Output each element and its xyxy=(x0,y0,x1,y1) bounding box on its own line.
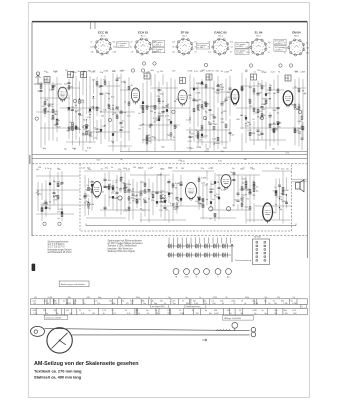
svg-text:2,2M: 2,2M xyxy=(58,209,63,211)
svg-text:1,2k: 1,2k xyxy=(172,47,175,49)
capacitor xyxy=(156,192,159,193)
dashed PCB box xyxy=(80,164,292,231)
svg-text:Rö 6: Rö 6 xyxy=(294,36,299,38)
svg-text:12k: 12k xyxy=(97,303,100,305)
wire xyxy=(302,79,304,140)
wire xyxy=(246,219,290,221)
IF transformer xyxy=(285,75,291,81)
capacitor xyxy=(217,89,220,90)
junction xyxy=(136,195,137,196)
svg-text:3n: 3n xyxy=(262,310,264,312)
wire xyxy=(265,82,267,150)
capacitor xyxy=(176,207,179,208)
svg-text:zu Stift 3: zu Stift 3 xyxy=(275,42,282,45)
junction xyxy=(124,112,125,113)
svg-text:15p: 15p xyxy=(173,303,176,305)
tube socket EL 84 xyxy=(250,38,267,55)
svg-text:12k: 12k xyxy=(46,303,49,305)
wire xyxy=(292,178,307,180)
wire xyxy=(130,174,170,176)
table note box xyxy=(300,305,307,308)
capacitor xyxy=(56,124,59,125)
junction xyxy=(82,133,83,134)
svg-text:50: 50 xyxy=(230,52,232,54)
IF transformer xyxy=(81,72,87,78)
wire xyxy=(40,127,80,129)
resistor xyxy=(154,106,156,109)
resistor xyxy=(205,103,207,106)
svg-text:12k: 12k xyxy=(194,52,197,54)
wire xyxy=(189,74,191,151)
tube V9 xyxy=(263,203,273,223)
wire xyxy=(36,213,74,215)
resistor xyxy=(275,192,277,195)
wire xyxy=(170,78,172,140)
resistor xyxy=(214,214,216,217)
capacitor xyxy=(176,198,179,199)
frame tick wires xyxy=(91,22,96,29)
junction xyxy=(88,202,89,203)
wire xyxy=(72,75,74,146)
svg-text:560: 560 xyxy=(293,313,296,315)
wire xyxy=(201,79,203,145)
capacitor xyxy=(100,93,103,94)
electrolytic cap xyxy=(227,207,231,211)
resistor xyxy=(72,123,74,126)
voltage table 2 xyxy=(31,308,308,314)
resistor xyxy=(146,136,148,139)
svg-text:560: 560 xyxy=(113,42,116,44)
wire xyxy=(142,83,144,144)
resistor xyxy=(57,183,59,186)
svg-text:33k: 33k xyxy=(285,313,288,315)
svg-text:Netzspannungs-Umsch.: Netzspannungs-Umsch. xyxy=(48,248,73,251)
junction xyxy=(48,106,49,107)
antenna xyxy=(34,72,42,84)
wire xyxy=(196,141,228,143)
resistor xyxy=(68,86,70,89)
wire xyxy=(286,177,288,208)
capacitor xyxy=(278,185,281,186)
cord spring xyxy=(216,329,231,331)
junction xyxy=(154,112,155,113)
bus wire lower xyxy=(86,224,296,226)
resistor xyxy=(197,135,199,138)
svg-text:1M: 1M xyxy=(213,118,216,120)
resistor xyxy=(205,85,207,88)
svg-text:1M: 1M xyxy=(121,127,124,129)
svg-text:2,2M: 2,2M xyxy=(186,120,191,122)
wire xyxy=(140,219,186,221)
coil core xyxy=(45,207,47,210)
svg-text:3n: 3n xyxy=(182,300,184,302)
resistor xyxy=(108,105,110,108)
resistor xyxy=(128,102,130,105)
tube V8 xyxy=(221,175,231,190)
svg-text:22n: 22n xyxy=(43,310,46,312)
svg-text:4,7k: 4,7k xyxy=(127,313,131,315)
wire xyxy=(36,189,80,191)
wire xyxy=(210,181,212,209)
resistor xyxy=(44,102,46,105)
table note box xyxy=(44,315,67,319)
wire xyxy=(279,178,281,219)
junction xyxy=(279,198,280,199)
wire xyxy=(249,175,251,223)
svg-text:0,5M: 0,5M xyxy=(95,129,100,131)
wire xyxy=(88,178,90,215)
cord arrow mark xyxy=(202,339,207,341)
capacitor xyxy=(217,85,220,86)
wire xyxy=(253,175,255,223)
svg-text:Rö 3: Rö 3 xyxy=(182,36,187,38)
wire xyxy=(154,74,156,152)
capacitor xyxy=(257,130,260,131)
tube socket EF 89 xyxy=(176,38,193,55)
resistor xyxy=(253,182,255,185)
capacitor xyxy=(120,123,123,124)
circled number xyxy=(289,64,292,67)
svg-text:0,1: 0,1 xyxy=(69,313,72,315)
svg-text:90: 90 xyxy=(229,313,231,315)
wire xyxy=(197,82,199,147)
resistor xyxy=(128,197,130,200)
capacitor xyxy=(189,137,192,138)
dial cord line upper xyxy=(44,329,249,331)
coil core xyxy=(89,109,91,112)
circled number xyxy=(153,62,156,65)
socket pin labels EABC 80 xyxy=(208,42,234,54)
svg-text:4,7k: 4,7k xyxy=(208,52,211,54)
svg-text:1M: 1M xyxy=(176,202,179,204)
resistor xyxy=(277,89,279,92)
junction xyxy=(132,188,133,189)
wire xyxy=(292,180,307,182)
switch wiring ticks xyxy=(169,238,231,244)
junction xyxy=(257,116,258,117)
capacitor xyxy=(213,117,216,118)
resistor xyxy=(108,186,110,189)
svg-text:5n: 5n xyxy=(269,47,271,49)
svg-text:2,2M: 2,2M xyxy=(202,101,207,103)
resistor xyxy=(217,137,219,140)
resistor xyxy=(144,190,146,193)
resistor xyxy=(146,141,148,144)
svg-text:4,7k: 4,7k xyxy=(102,310,106,312)
notes text block 2 xyxy=(108,240,144,253)
wire xyxy=(38,83,62,85)
wire xyxy=(57,172,59,210)
capacitor xyxy=(120,130,123,131)
socket pin labels ECH 81 xyxy=(130,42,157,54)
capacitor xyxy=(120,112,123,113)
wire xyxy=(176,183,178,214)
junction xyxy=(112,107,113,108)
IF transformer xyxy=(44,77,50,83)
svg-text:Änderungen vorbehalten: Änderungen vorbehalten xyxy=(61,283,86,286)
junction xyxy=(302,90,303,91)
wire xyxy=(150,87,178,89)
capacitor xyxy=(45,202,48,203)
resistor xyxy=(265,100,267,103)
svg-text:47p: 47p xyxy=(268,42,271,44)
resistor xyxy=(241,88,243,91)
wire xyxy=(229,76,231,143)
svg-text:4,7k: 4,7k xyxy=(131,52,134,54)
svg-text:5k: 5k xyxy=(111,310,113,312)
junction xyxy=(162,101,163,102)
tube V1 xyxy=(58,87,67,102)
svg-text:6,8k: 6,8k xyxy=(306,52,309,54)
junction xyxy=(189,117,190,118)
socket pin labels EL 84 xyxy=(246,42,271,54)
coil core xyxy=(112,133,114,136)
wire xyxy=(36,175,80,177)
switch labels xyxy=(175,276,230,279)
svg-text:UKW: UKW xyxy=(184,277,188,279)
junction xyxy=(152,191,153,192)
capacitor xyxy=(229,133,232,134)
svg-text:30p: 30p xyxy=(246,42,249,44)
frame left border xyxy=(31,22,33,236)
resistor xyxy=(202,199,204,202)
svg-text:EF 89: EF 89 xyxy=(181,30,189,34)
wire xyxy=(218,174,220,219)
svg-text:70: 70 xyxy=(208,47,210,49)
resistor xyxy=(142,105,144,108)
svg-text:1M: 1M xyxy=(181,168,184,170)
junction xyxy=(205,119,206,120)
wire xyxy=(116,75,118,142)
circled number xyxy=(260,116,263,119)
svg-text:70: 70 xyxy=(167,313,169,315)
capacitor xyxy=(261,133,264,134)
resistor xyxy=(253,108,255,111)
svg-text:125: 125 xyxy=(126,303,129,305)
wire xyxy=(104,173,106,217)
resistor xyxy=(128,207,130,210)
resistor xyxy=(56,119,58,122)
wire xyxy=(108,81,110,142)
svg-text:zu Stift 6: zu Stift 6 xyxy=(236,45,243,48)
resistor xyxy=(282,187,284,190)
capacitor xyxy=(237,200,240,201)
resistor xyxy=(124,189,126,192)
wire xyxy=(166,82,168,139)
svg-text:0,5M: 0,5M xyxy=(221,190,226,192)
svg-text:Spannungen mit Röhrenvoltmeter: Spannungen mit Röhrenvoltmeter xyxy=(108,240,143,243)
wire xyxy=(49,171,51,211)
scan mark left edge xyxy=(29,155,31,164)
table note box xyxy=(151,305,169,308)
tube V6 xyxy=(93,182,102,199)
svg-text:2,2M: 2,2M xyxy=(266,99,271,101)
svg-text:Toleranz ± 15%. Meßbereich: Toleranz ± 15%. Meßbereich xyxy=(108,245,138,248)
boxed note xyxy=(59,281,89,287)
capacitor xyxy=(180,184,183,185)
capacitor xyxy=(104,179,107,180)
capacitor xyxy=(168,182,171,183)
svg-text:6,8k: 6,8k xyxy=(230,42,233,44)
resistor xyxy=(249,207,251,210)
svg-text:1M: 1M xyxy=(241,85,244,87)
junction xyxy=(116,187,117,188)
svg-text:0,1: 0,1 xyxy=(268,52,270,54)
resistor xyxy=(88,203,90,206)
svg-text:1M: 1M xyxy=(147,135,150,137)
wire xyxy=(180,175,182,206)
wire xyxy=(56,77,58,141)
svg-text:0,5M: 0,5M xyxy=(221,101,226,103)
svg-text:0,5M: 0,5M xyxy=(67,303,72,305)
wire xyxy=(108,145,132,147)
tube V5 xyxy=(283,91,293,108)
resistor xyxy=(172,184,174,187)
coil core xyxy=(210,201,212,204)
junction xyxy=(172,205,173,206)
svg-text:zu Stift 4: zu Stift 4 xyxy=(153,43,160,46)
resistor xyxy=(261,86,263,89)
resistor xyxy=(245,181,247,184)
wire xyxy=(210,209,250,211)
wire xyxy=(86,76,88,142)
wire xyxy=(60,107,100,109)
table header text row xyxy=(34,297,295,299)
resistor xyxy=(170,133,172,136)
wire xyxy=(186,129,230,131)
junction xyxy=(112,142,113,143)
coil core xyxy=(91,184,93,187)
coil core xyxy=(112,196,114,199)
svg-text:0,5M: 0,5M xyxy=(252,310,257,312)
junction xyxy=(269,98,270,99)
socket note box xyxy=(152,47,164,53)
capacitor xyxy=(128,189,131,190)
circled number xyxy=(43,222,46,225)
wire xyxy=(174,80,176,151)
wire xyxy=(168,179,170,223)
junction xyxy=(160,192,161,193)
coil core xyxy=(49,183,51,186)
junction xyxy=(89,114,90,115)
coil core xyxy=(168,192,170,195)
wire xyxy=(37,182,39,211)
IF transformer xyxy=(251,74,257,80)
svg-text:5n: 5n xyxy=(57,313,59,315)
capacitor xyxy=(144,201,147,202)
junction xyxy=(93,107,94,108)
table note box xyxy=(185,305,206,308)
binder mark xyxy=(32,264,36,271)
wire xyxy=(84,175,86,216)
coil core xyxy=(61,211,63,214)
speaker LS xyxy=(296,180,305,192)
junction xyxy=(37,191,38,192)
resistor xyxy=(52,109,54,112)
capacitor xyxy=(52,86,55,87)
svg-text:5k: 5k xyxy=(241,313,243,315)
wire xyxy=(41,183,43,221)
wire xyxy=(124,80,126,148)
junction xyxy=(75,105,76,106)
coil core xyxy=(100,129,102,132)
junction xyxy=(108,188,109,189)
resistor xyxy=(52,116,54,119)
wire xyxy=(128,77,130,152)
wire xyxy=(84,170,130,172)
junction xyxy=(79,98,80,99)
wire xyxy=(48,79,50,141)
coil core xyxy=(218,197,220,200)
svg-text:10k: 10k xyxy=(208,42,211,44)
resistor xyxy=(136,200,138,203)
svg-text:0,5M: 0,5M xyxy=(85,130,90,132)
svg-text:Sicherungselemente: Sicherungselemente xyxy=(48,241,70,244)
wire xyxy=(91,180,93,211)
svg-text:15p: 15p xyxy=(194,42,197,44)
IF transformer xyxy=(180,78,186,84)
svg-text:1M: 1M xyxy=(83,125,86,127)
wire xyxy=(213,81,215,150)
resistor xyxy=(68,127,70,130)
svg-text:0,5M: 0,5M xyxy=(292,303,297,305)
resistor xyxy=(146,106,148,109)
wire xyxy=(140,124,180,126)
svg-text:1M: 1M xyxy=(244,159,247,161)
junction xyxy=(193,99,194,100)
svg-text:Rö Stift: Rö Stift xyxy=(254,236,261,239)
capacitor xyxy=(78,114,81,115)
svg-text:15p: 15p xyxy=(143,303,146,305)
svg-text:Rö 2: Rö 2 xyxy=(141,36,146,38)
wire xyxy=(112,180,114,210)
resistor xyxy=(158,116,160,119)
junction xyxy=(176,204,177,205)
wire xyxy=(190,87,214,89)
capacitor xyxy=(116,79,119,80)
wire xyxy=(79,81,81,145)
circled number xyxy=(73,99,76,102)
junction xyxy=(174,101,175,102)
coil core xyxy=(201,82,203,85)
junction xyxy=(273,123,274,124)
wire xyxy=(82,73,84,151)
resistor xyxy=(273,128,275,131)
capacitor xyxy=(229,88,232,89)
capacitor xyxy=(261,106,264,107)
svg-text:1,2k: 1,2k xyxy=(33,313,37,315)
resistor xyxy=(72,127,74,130)
svg-text:0,5M: 0,5M xyxy=(197,147,202,149)
svg-text:560: 560 xyxy=(214,310,217,312)
wire xyxy=(233,171,235,207)
wire xyxy=(93,80,95,140)
coil core xyxy=(75,126,77,129)
svg-text:5k: 5k xyxy=(244,303,246,305)
resistor xyxy=(269,124,271,127)
capacitor xyxy=(164,207,167,208)
resistor xyxy=(273,128,275,131)
wire xyxy=(100,79,102,145)
capacitor xyxy=(269,116,272,117)
resistor xyxy=(104,81,106,84)
svg-text:Aus: Aus xyxy=(227,276,230,279)
wire xyxy=(244,85,266,87)
capacitor xyxy=(84,197,87,198)
junction xyxy=(49,201,50,202)
IF transformer xyxy=(68,72,74,78)
capacitor xyxy=(116,192,119,193)
